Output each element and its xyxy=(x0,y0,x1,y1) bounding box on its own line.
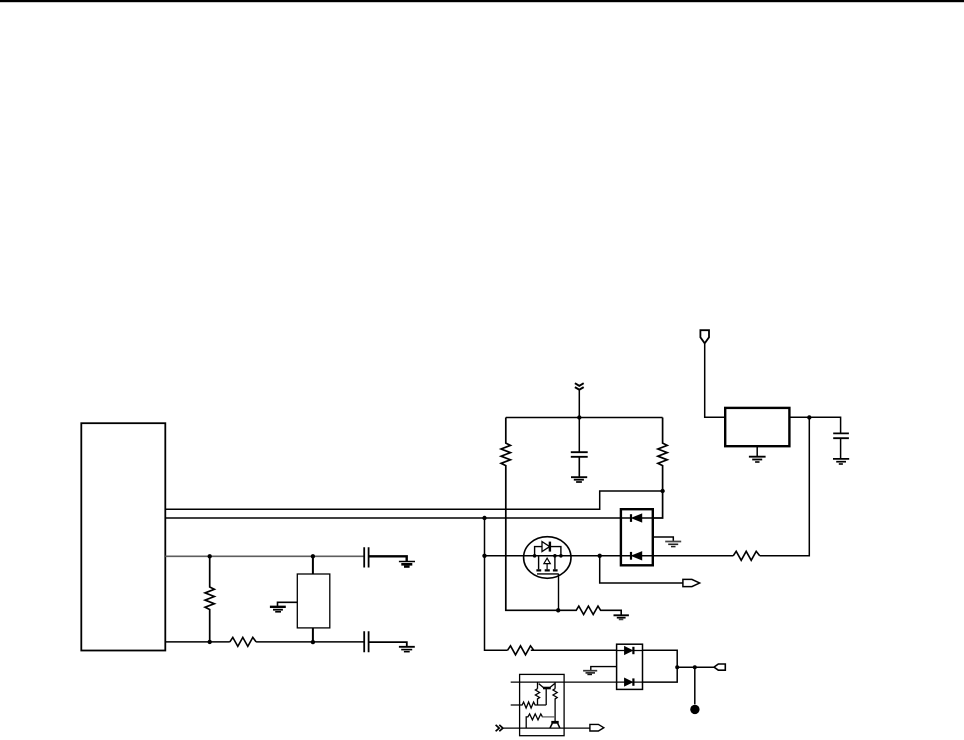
ground G4 xyxy=(571,476,587,478)
wire loop top xyxy=(506,417,663,419)
resistor R6 xyxy=(558,606,621,615)
resistor R7 xyxy=(733,551,760,560)
wire lineA xyxy=(511,681,617,683)
wire bus1 xyxy=(165,491,662,509)
connector J1 xyxy=(700,330,709,343)
opto U2 xyxy=(520,674,565,735)
node antenna tap xyxy=(577,415,581,419)
capacitor C3 xyxy=(571,452,588,457)
ground G3 xyxy=(399,646,415,648)
transistor Q4 xyxy=(551,721,558,724)
node D2 output xyxy=(675,665,679,669)
transistor Q3 xyxy=(550,682,555,689)
wire to A2 xyxy=(677,666,714,668)
node testpoint tap xyxy=(693,665,697,669)
resistor R2 xyxy=(230,637,256,646)
resistor R4 xyxy=(653,418,667,519)
wire D2 right loop xyxy=(642,650,677,682)
resistor R11 xyxy=(526,714,542,728)
pin arrow A1 xyxy=(683,579,700,586)
node Q1 left xyxy=(533,554,537,558)
capacitor C2 xyxy=(364,631,368,652)
node Y1 bottom xyxy=(311,640,315,644)
wire bus2 xyxy=(165,517,621,519)
node R1 bottom xyxy=(208,640,212,644)
resistor R9 xyxy=(535,689,539,705)
wire branch node X down to R5 line xyxy=(485,518,617,650)
resistor R10 xyxy=(553,689,557,722)
capacitor C1 xyxy=(364,547,368,567)
node Y1 top xyxy=(311,554,315,558)
pin arrow A2 xyxy=(714,664,725,670)
transistor Q2 xyxy=(538,682,547,705)
dual diode D1 xyxy=(621,509,653,565)
resistor R3 xyxy=(501,418,558,611)
node R4 tap xyxy=(660,489,664,493)
node R1 top xyxy=(208,554,212,558)
wire out1 xyxy=(600,556,683,583)
wire C1 to ground xyxy=(369,556,407,561)
wire bus3 gray xyxy=(165,555,364,557)
node gate junction xyxy=(556,608,560,612)
module B2 xyxy=(725,408,789,446)
IC U1 xyxy=(81,423,165,650)
ground G5 xyxy=(756,446,758,456)
wire R11 to Q4 xyxy=(542,716,555,718)
wire C3 to ground xyxy=(578,457,580,477)
ground G1 xyxy=(278,602,298,606)
node bus2 branch xyxy=(482,516,486,520)
ground G2 xyxy=(399,561,415,563)
resistor R5 xyxy=(508,646,534,655)
MOSFET Q1 xyxy=(524,537,571,611)
resistor R8 xyxy=(511,702,547,708)
pin arrow A3 xyxy=(590,724,604,731)
node out1 tap xyxy=(598,554,602,558)
wire antenna drop xyxy=(578,390,580,452)
wire bus3 right xyxy=(485,417,810,555)
testpoint TP1 xyxy=(690,705,699,714)
wire lineC xyxy=(503,727,590,729)
wire B2 right xyxy=(789,417,840,433)
crystal Y1 xyxy=(312,556,314,642)
node Q1 mid xyxy=(553,554,557,558)
wire C4 to ground xyxy=(840,438,842,458)
ground G7 xyxy=(653,537,674,541)
resistor R1 xyxy=(205,556,214,642)
node Q1 right xyxy=(559,554,563,558)
ground G9 xyxy=(591,667,617,671)
wire C2 to ground xyxy=(369,642,407,646)
wire bus4 xyxy=(165,641,364,643)
wire J1 to B2 xyxy=(705,343,726,417)
ground G6 xyxy=(833,458,849,460)
wire testpoint xyxy=(694,667,696,704)
capacitor C4 xyxy=(833,433,849,438)
ground G8 xyxy=(614,614,629,616)
node B2 output xyxy=(807,415,811,419)
input E2 xyxy=(496,725,503,731)
base bar Q2/Q3 xyxy=(543,687,551,690)
node bus3 branch xyxy=(482,554,486,558)
antenna E1 xyxy=(575,383,584,390)
dual diode D2 xyxy=(617,644,643,689)
